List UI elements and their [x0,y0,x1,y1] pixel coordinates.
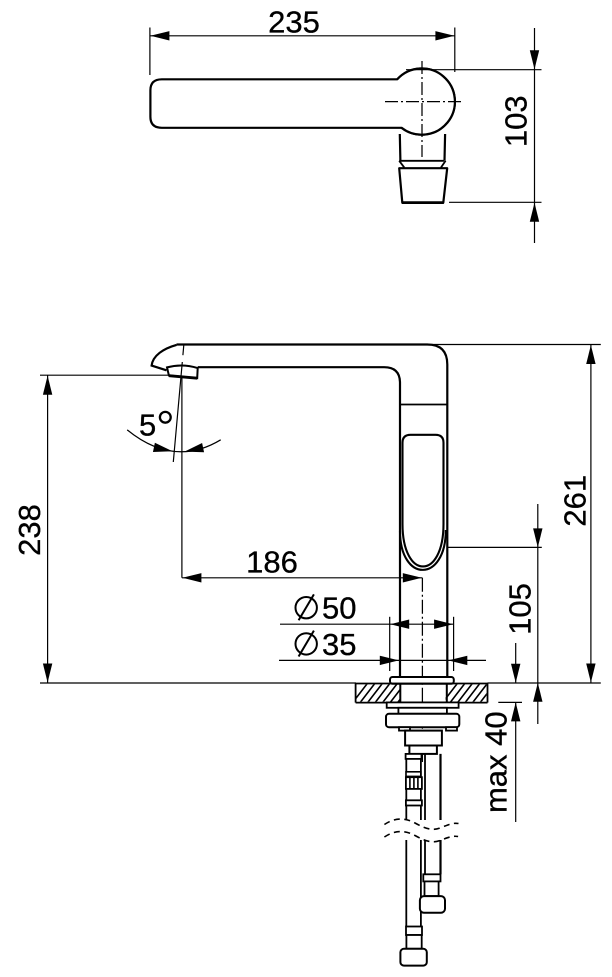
hose end tube [406,935,421,949]
dim 261 / countertop extension line right [488,682,601,684]
svg-text:105: 105 [503,583,538,635]
svg-text:35: 35 [322,627,356,662]
break gap white-out [384,819,458,842]
centerline vertical (top view) [421,61,423,157]
spacer block [398,708,447,714]
svg-text:max 40: max 40 [479,711,514,813]
dim line 105 (outside arrows) [533,504,542,724]
mounting bracket [386,714,459,727]
hose crimp collar [406,927,422,936]
dim line max40 (outside arrows) [511,643,520,822]
step block [409,746,437,754]
bracket screw right [446,727,457,730]
dishwasher tube (right) lower part [425,840,441,874]
dim line 238 [43,375,52,683]
seam line on body [400,404,447,406]
dim line dia35 (outside arrows) [279,656,486,665]
aerator (side view) [167,366,198,379]
supply hose (left) lower part [406,840,421,927]
dim 261 extension line top [427,344,601,346]
svg-text:50: 50 [322,591,356,626]
dishwasher outlet block [420,896,445,913]
dim line 235 [150,31,455,40]
bracket screw left [399,727,410,730]
dim line 103 (outside arrows) [530,28,539,243]
dim max40 extension line (countertop bottom) [498,701,522,703]
dim 103 extension line top [406,69,542,71]
handle lever (side view) [403,435,444,567]
dim 235 extension line right [454,28,456,73]
shank through countertop [400,684,447,703]
dim line dia50 [280,620,454,629]
svg-text:238: 238 [12,504,47,556]
dim 105 extension line top [448,546,542,548]
hose nut [400,949,426,966]
dishwasher tube (right) upper part [425,754,441,820]
svg-text:261: 261 [558,475,593,527]
aerator cone (top view) [399,168,447,202]
break wavy line lower (dashed) [384,832,458,842]
break wavy line upper (dashed) [384,819,458,829]
aerator neck (top view) [399,134,445,168]
dishwasher tube narrow end [425,881,439,896]
faucet outline (side view) [152,345,448,678]
supply hose (left) upper part [406,754,422,820]
handle socket rim arc [400,530,446,570]
dim 103 extension line bottom [449,201,542,203]
svg-text:5: 5 [139,408,156,443]
dim 238 extension line top [40,374,168,376]
label dia 35 [296,627,357,662]
label dia 50 [296,591,357,626]
spout bar silhouette (top view) [150,68,454,134]
washer under countertop [387,702,459,707]
svg-text:235: 235 [268,4,320,39]
centerline horizontal (top view) [385,101,462,103]
base flange on countertop [390,677,454,684]
dim line 261 [586,345,595,683]
5 degree tilted axis line [173,345,184,462]
vertical reference line from aerator down to 186 dim [181,377,183,578]
lower block [405,731,442,746]
dim 50 extension lines [389,617,391,671]
dim 238 extension line bottom (to countertop) [40,682,356,684]
countertop with hatching [350,680,498,706]
svg-text:103: 103 [498,95,533,147]
swivel body circle (top view) [389,69,455,135]
dim line 186 [182,573,422,582]
dim 235 extension line left [149,28,151,76]
dishwasher tube end band [423,874,440,881]
angle arc 5deg [127,430,221,456]
body centerline (dash-dot) [421,578,423,762]
svg-text:186: 186 [246,544,298,579]
